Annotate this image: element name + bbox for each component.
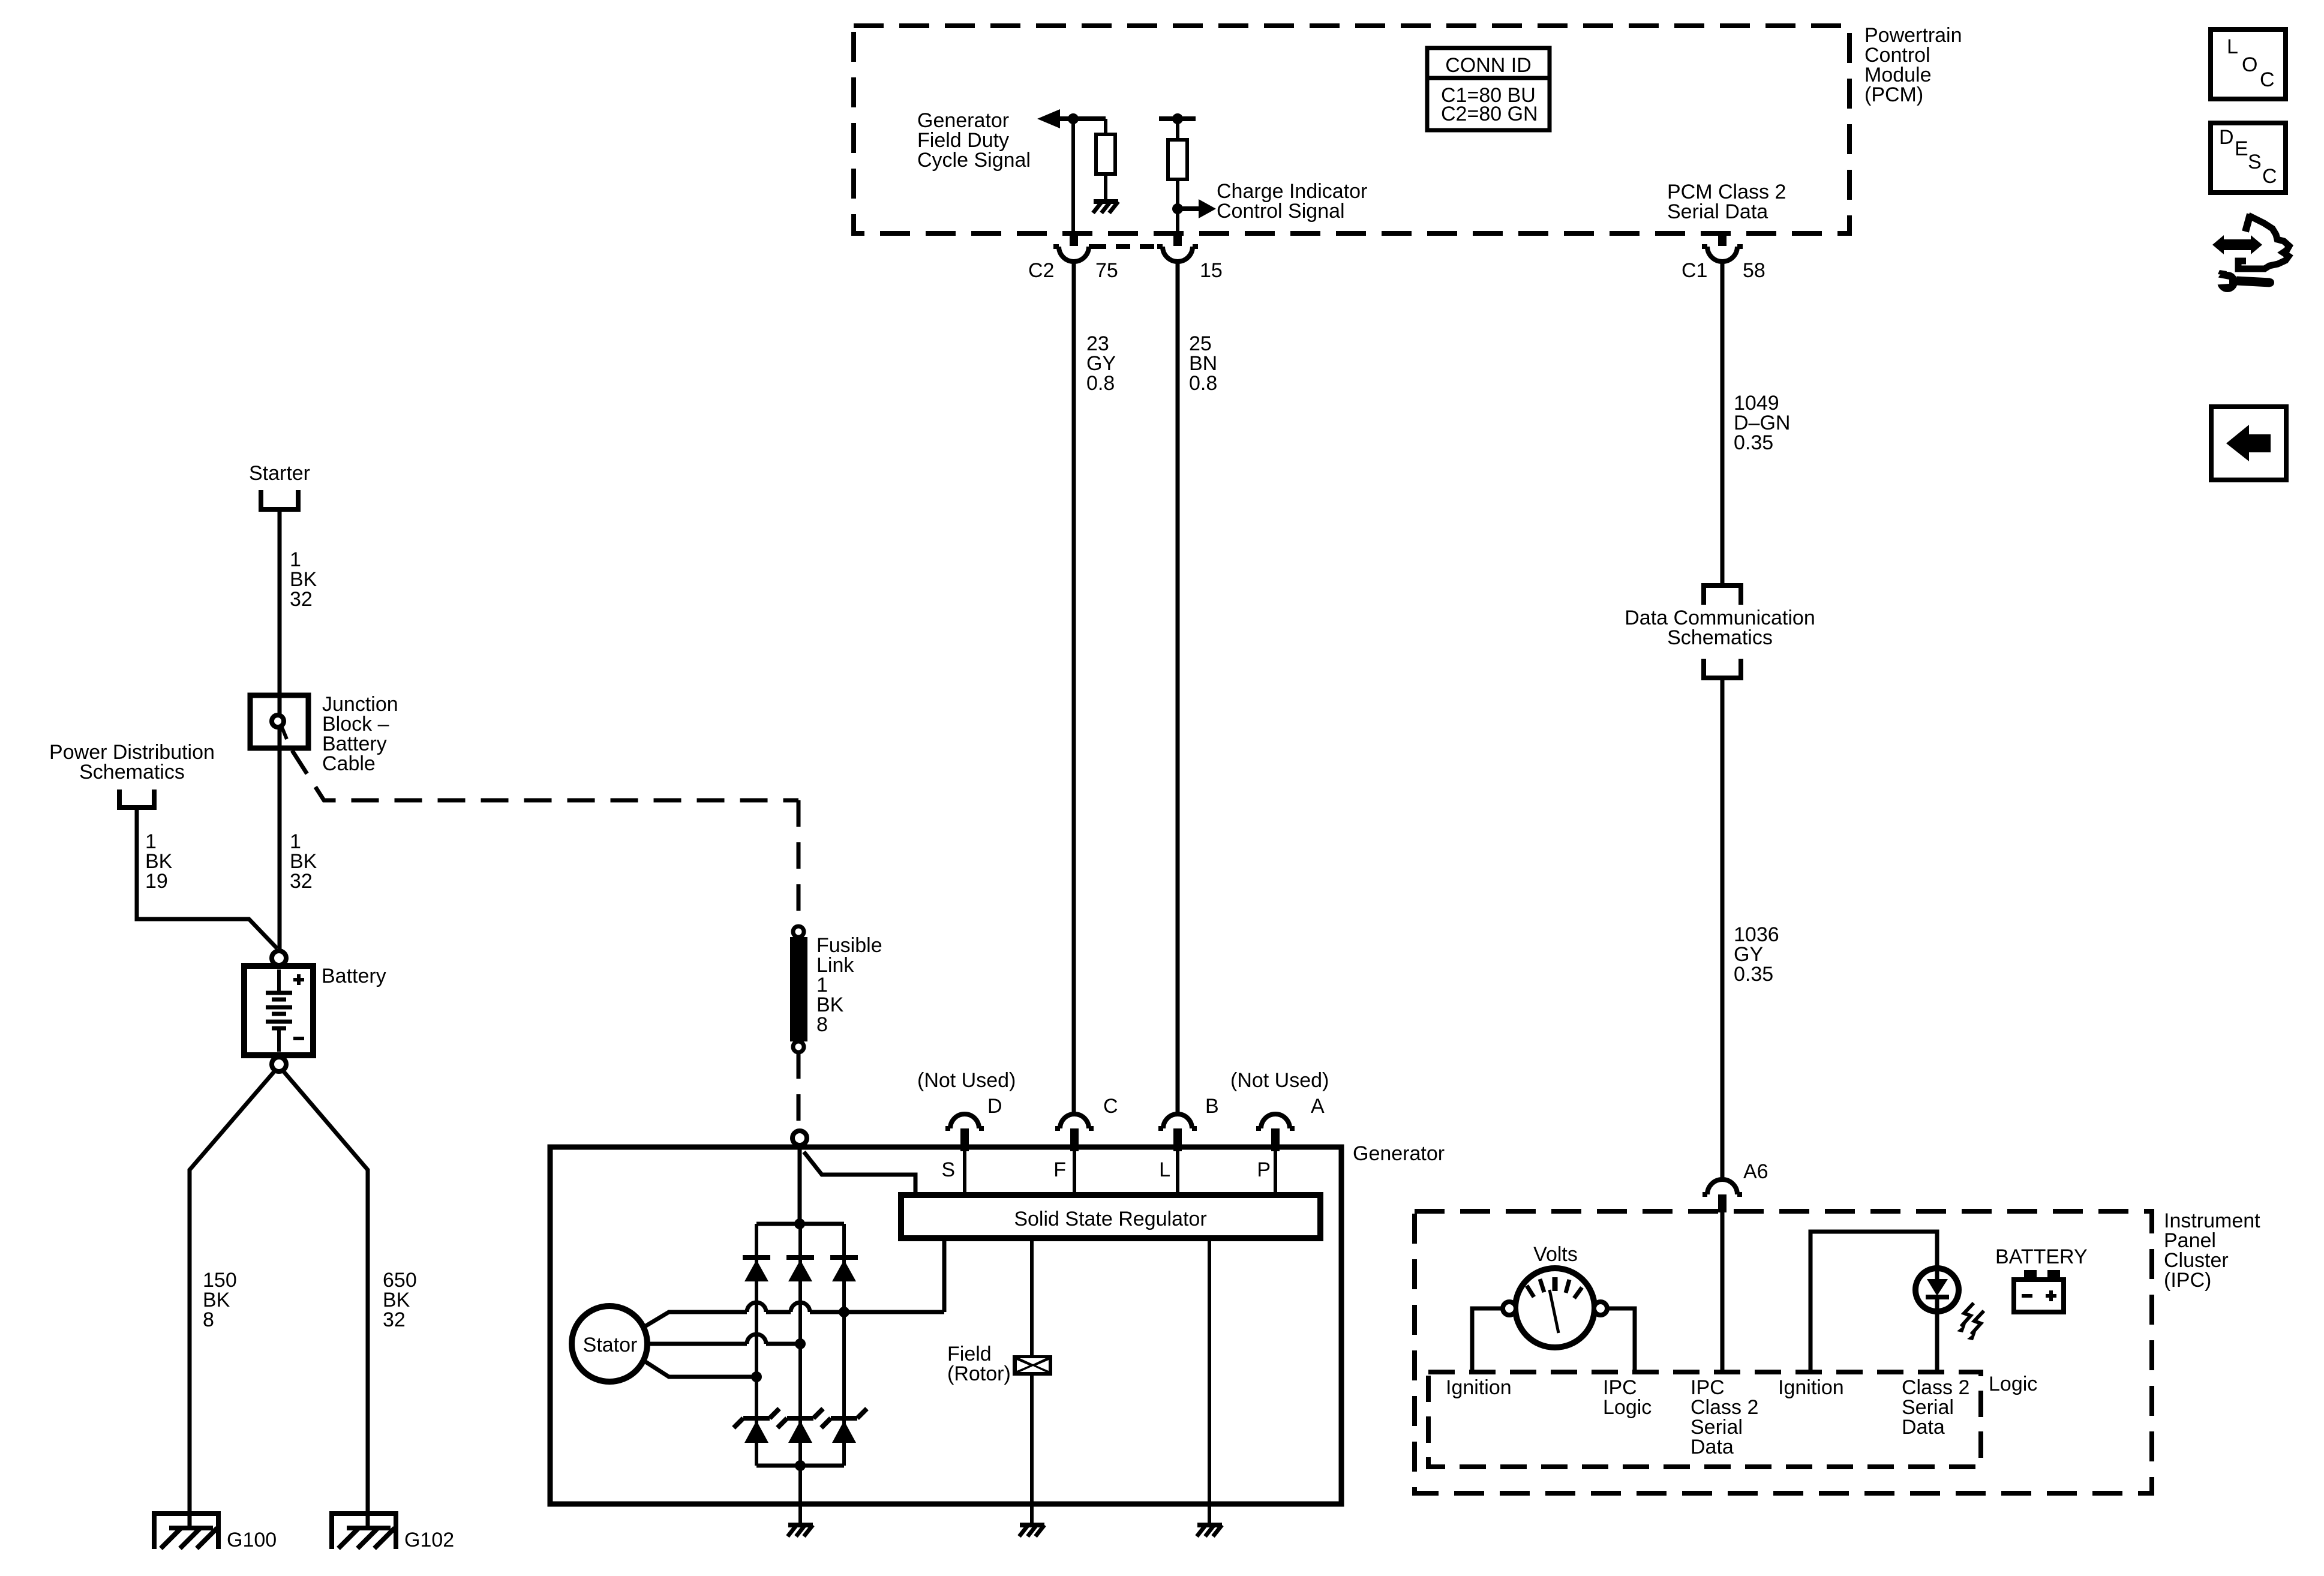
svg-text:A: A bbox=[1311, 1095, 1325, 1118]
svg-text:O: O bbox=[2242, 53, 2257, 76]
connector C2 pin 15 bbox=[1157, 231, 1198, 262]
icon battery telltale bbox=[2014, 1270, 2064, 1312]
label Starter bbox=[249, 462, 310, 485]
label Volts bbox=[1533, 1243, 1578, 1266]
ground rectifier bbox=[788, 1525, 813, 1536]
wire battery to G100 bbox=[190, 1070, 275, 1528]
wire field to ground bbox=[1030, 1376, 1034, 1525]
svg-text:C: C bbox=[1103, 1095, 1118, 1118]
wire R1 to ground bbox=[1104, 174, 1107, 202]
svg-text:S: S bbox=[941, 1158, 955, 1181]
label 1036 GY 0.35 bbox=[1734, 923, 1779, 986]
pin label 75 bbox=[1095, 259, 1118, 282]
wire pin 15 vertical bbox=[1176, 209, 1179, 231]
node rail at pin 15 bbox=[1159, 113, 1196, 124]
svg-text:8: 8 bbox=[203, 1308, 214, 1331]
svg-text:Cable: Cable bbox=[322, 752, 376, 775]
label Not Used left bbox=[917, 1069, 1016, 1092]
junction block - battery cable bbox=[250, 695, 308, 748]
label BATTERY bbox=[1995, 1245, 2088, 1268]
pin label A bbox=[1311, 1095, 1325, 1118]
arrow Generator Field Duty Cycle Signal bbox=[1037, 109, 1073, 128]
connector D not used bbox=[945, 1114, 984, 1151]
svg-text:D: D bbox=[987, 1095, 1002, 1118]
svg-text:0.35: 0.35 bbox=[1734, 431, 1773, 454]
label Generator Field Duty Cycle Signal bbox=[917, 109, 1031, 172]
ground PCM internal bbox=[1093, 202, 1118, 213]
svg-text:0.35: 0.35 bbox=[1734, 963, 1773, 986]
label Power Distribution Schematics bbox=[49, 741, 215, 784]
svg-text:C2=80 GN: C2=80 GN bbox=[1441, 103, 1538, 125]
diode D2 top bbox=[786, 1257, 814, 1281]
svg-text:P: P bbox=[1257, 1158, 1271, 1181]
LED charge indicator bbox=[1915, 1268, 1959, 1372]
pin label F bbox=[1053, 1158, 1066, 1181]
terminal circle battery feed bbox=[792, 1131, 807, 1145]
label PCM Class 2 Serial Data bbox=[1667, 181, 1786, 223]
svg-text:19: 19 bbox=[145, 870, 168, 893]
IPC dashed box bbox=[1415, 1211, 2152, 1493]
PCM module dashed box bbox=[854, 26, 1849, 233]
resistor R2 bbox=[1168, 140, 1187, 179]
ground regulator bbox=[1197, 1525, 1222, 1536]
LED light arrows bbox=[1957, 1303, 1984, 1340]
off-page bracket Data Communication bottom bbox=[1704, 659, 1741, 678]
wire stator phase 2 bbox=[647, 1334, 800, 1344]
rectifier bottom bus bbox=[756, 1464, 844, 1468]
connector A not used bbox=[1256, 1114, 1295, 1151]
svg-text:G100: G100 bbox=[227, 1529, 277, 1551]
wire to resistor R1 bbox=[1073, 119, 1106, 134]
svg-text:Starter: Starter bbox=[249, 462, 310, 485]
label 25 BN 0.8 bbox=[1189, 332, 1217, 395]
ground G102 bbox=[332, 1514, 396, 1549]
pin label S bbox=[941, 1158, 955, 1181]
svg-text:Volts: Volts bbox=[1533, 1243, 1578, 1266]
connector C bbox=[1055, 1114, 1094, 1151]
pin label A6 bbox=[1743, 1160, 1768, 1183]
diode Z3 avalanche bottom bbox=[821, 1409, 867, 1443]
IPC logic inner dashed box bbox=[1428, 1372, 1981, 1467]
wire stator phase 1 bbox=[642, 1238, 944, 1328]
svg-text:Logic: Logic bbox=[1989, 1373, 2037, 1395]
generator box bbox=[550, 1147, 1341, 1504]
pin label C1 bbox=[1682, 259, 1707, 282]
svg-text:C: C bbox=[2260, 68, 2275, 91]
label G100 bbox=[227, 1529, 277, 1551]
node top bus junction bbox=[794, 1218, 805, 1229]
stator winding bbox=[572, 1306, 647, 1382]
svg-text:(IPC): (IPC) bbox=[2164, 1269, 2211, 1292]
svg-text:L: L bbox=[2227, 35, 2238, 58]
connector C1 pin 58 bbox=[1702, 231, 1743, 262]
svg-text:F: F bbox=[1053, 1158, 1066, 1181]
ground G100 bbox=[154, 1514, 218, 1549]
svg-text:BATTERY: BATTERY bbox=[1995, 1245, 2088, 1268]
label Class 2 Serial Data bbox=[1902, 1376, 1969, 1439]
svg-text:8: 8 bbox=[816, 1013, 828, 1036]
icon DESC box bbox=[2211, 123, 2286, 193]
svg-text:Ignition: Ignition bbox=[1446, 1376, 1512, 1399]
diode D1 top bbox=[743, 1257, 770, 1281]
wire battery to G102 bbox=[283, 1070, 368, 1528]
node junction charge indicator bbox=[1172, 203, 1183, 214]
svg-text:Stator: Stator bbox=[583, 1334, 638, 1356]
node junction at pin 75 rail bbox=[1068, 113, 1079, 124]
wire junction block to battery bbox=[278, 748, 282, 952]
wire starter to junction block bbox=[278, 511, 282, 750]
wire F pin to regulator bbox=[1073, 1151, 1076, 1195]
gauge terminal right bbox=[1594, 1302, 1607, 1315]
connector A6 bbox=[1703, 1179, 1742, 1212]
svg-text:Schematics: Schematics bbox=[1667, 626, 1773, 649]
wire dashed drop to fusible link bbox=[797, 800, 801, 926]
svg-text:15: 15 bbox=[1200, 259, 1223, 282]
label Logic bbox=[1989, 1373, 2037, 1395]
svg-text:(PCM): (PCM) bbox=[1864, 83, 1923, 106]
label Ignition left bbox=[1446, 1376, 1512, 1399]
pin label C bbox=[1103, 1095, 1118, 1118]
svg-text:Control Signal: Control Signal bbox=[1217, 200, 1345, 223]
pin label C2 bbox=[1028, 259, 1054, 282]
node phase 3 junction bbox=[751, 1371, 762, 1382]
off-page bracket Data Communication top bbox=[1704, 586, 1741, 605]
svg-text:D: D bbox=[2219, 126, 2234, 149]
label Powertrain Control Module (PCM) bbox=[1864, 24, 1962, 106]
wire volts gauge to IPC logic bbox=[1607, 1308, 1635, 1372]
svg-text:58: 58 bbox=[1743, 259, 1765, 282]
svg-text:Schematics: Schematics bbox=[79, 761, 185, 784]
diode Z1 avalanche bottom bbox=[734, 1409, 779, 1443]
wire 23 GY 0.8 bbox=[1072, 262, 1076, 1114]
svg-text:E: E bbox=[2235, 137, 2248, 160]
pin label P bbox=[1257, 1158, 1271, 1181]
svg-text:75: 75 bbox=[1095, 259, 1118, 282]
svg-text:Battery: Battery bbox=[322, 965, 386, 987]
wire regulator to field bbox=[1030, 1238, 1034, 1357]
connector C2 pin 75 bbox=[1053, 231, 1094, 262]
wire S pin to regulator bbox=[963, 1151, 966, 1195]
diode D3 top bbox=[830, 1257, 858, 1281]
wire 25 BN 0.8 bbox=[1176, 262, 1180, 1114]
svg-text:(Rotor): (Rotor) bbox=[947, 1362, 1011, 1385]
svg-text:Serial Data: Serial Data bbox=[1667, 200, 1768, 223]
connector B bbox=[1158, 1114, 1197, 1151]
gauge Volts bbox=[1515, 1268, 1595, 1347]
battery negative terminal bbox=[272, 1057, 286, 1071]
icon wrench bbox=[2212, 270, 2274, 292]
node bottom bus junction bbox=[795, 1460, 806, 1471]
off-page bracket Starter bbox=[261, 490, 298, 509]
svg-text:L: L bbox=[1159, 1158, 1170, 1181]
node phase 2 junction bbox=[795, 1338, 806, 1349]
label Ignition right bbox=[1778, 1376, 1844, 1399]
wire L pin to regulator bbox=[1176, 1151, 1179, 1195]
svg-text:CONN ID: CONN ID bbox=[1445, 54, 1532, 77]
label Battery bbox=[322, 965, 386, 987]
label 1 BK 32 upper bbox=[290, 548, 317, 611]
wire pin 75 vertical bbox=[1071, 119, 1075, 231]
pin label D bbox=[987, 1095, 1002, 1118]
battery positive terminal bbox=[272, 951, 286, 965]
label 1 BK 32 lower bbox=[290, 830, 317, 893]
label 650 BK 32 bbox=[383, 1269, 417, 1331]
resistor R1 bbox=[1096, 134, 1115, 174]
pin label 58 bbox=[1743, 259, 1765, 282]
label 150 BK 8 bbox=[203, 1269, 237, 1331]
svg-text:Solid State Regulator: Solid State Regulator bbox=[1014, 1208, 1206, 1230]
label Charge Indicator Control Signal bbox=[1217, 180, 1367, 223]
wire ignition riser to LED bbox=[1810, 1232, 1937, 1372]
wire battery feed jog to regulator bbox=[804, 1152, 915, 1195]
svg-text:(Not Used): (Not Used) bbox=[917, 1069, 1016, 1092]
gauge terminal left bbox=[1503, 1302, 1516, 1315]
icon diagnostic arrows bbox=[2212, 214, 2289, 269]
wire P pin to regulator bbox=[1274, 1151, 1277, 1195]
ground field bbox=[1019, 1525, 1044, 1536]
fusible link terminal top bbox=[793, 926, 804, 937]
pin label 15 bbox=[1200, 259, 1223, 282]
label Instrument Panel Cluster (IPC) bbox=[2164, 1209, 2260, 1292]
label Fusible Link 1 BK 8 bbox=[816, 934, 882, 1036]
field rotor winding bbox=[1013, 1355, 1052, 1376]
fusible link F1 bbox=[790, 937, 807, 1041]
label G102 bbox=[404, 1529, 454, 1551]
wire battery feed to rectifier bbox=[798, 1145, 802, 1224]
svg-text:(Not Used): (Not Used) bbox=[1230, 1069, 1329, 1092]
label Not Used right bbox=[1230, 1069, 1329, 1092]
wire rectifier column 2 bbox=[798, 1224, 802, 1466]
diode Z2 avalanche bottom bbox=[777, 1409, 823, 1443]
svg-text:A6: A6 bbox=[1743, 1160, 1768, 1183]
svg-text:C2: C2 bbox=[1028, 259, 1054, 282]
label Junction Block - Battery Cable bbox=[322, 693, 398, 775]
wire stator phase 3 bbox=[642, 1359, 756, 1377]
wire rail to resistor R2 bbox=[1176, 119, 1179, 140]
wire rectifier column 1 bbox=[755, 1224, 758, 1466]
pin label B bbox=[1205, 1095, 1219, 1118]
svg-text:32: 32 bbox=[383, 1308, 406, 1331]
label Data Communication Schematics bbox=[1625, 607, 1815, 649]
wire 1036 GY bbox=[1721, 678, 1725, 1178]
wire rectifier to ground bbox=[798, 1466, 802, 1525]
label Generator bbox=[1353, 1142, 1445, 1165]
label 1049 D-GN 0.35 bbox=[1734, 392, 1790, 454]
svg-text:Cycle Signal: Cycle Signal bbox=[917, 149, 1031, 172]
svg-text:32: 32 bbox=[290, 588, 313, 611]
battery G1 bbox=[244, 966, 313, 1055]
wire R2 to node bbox=[1176, 179, 1179, 209]
icon LOC box bbox=[2211, 29, 2286, 99]
regulator U1 Solid State Regulator bbox=[901, 1195, 1320, 1238]
label 23 GY 0.8 bbox=[1086, 332, 1116, 395]
wire rectifier column 3 bbox=[842, 1224, 846, 1466]
wire dashed fusible link to generator bbox=[797, 1052, 801, 1130]
label IPC Logic bbox=[1603, 1376, 1652, 1419]
svg-text:C1: C1 bbox=[1682, 259, 1707, 282]
svg-text:Data: Data bbox=[1902, 1416, 1945, 1439]
fusible link terminal bottom bbox=[793, 1041, 804, 1052]
svg-text:32: 32 bbox=[290, 870, 313, 893]
wire power distribution to battery bbox=[137, 809, 277, 948]
CONN ID table bbox=[1427, 48, 1550, 130]
svg-text:Ignition: Ignition bbox=[1778, 1376, 1844, 1399]
label 1 BK 19 bbox=[145, 830, 173, 893]
svg-text:G102: G102 bbox=[404, 1529, 454, 1551]
dashed connector link C2 bbox=[1092, 244, 1160, 249]
off-page bracket Power Distribution bbox=[119, 789, 154, 807]
svg-text:Logic: Logic bbox=[1603, 1396, 1652, 1419]
wire battery cable dashed bbox=[292, 751, 798, 800]
label Field (Rotor) bbox=[947, 1343, 1011, 1385]
svg-text:Generator: Generator bbox=[1353, 1142, 1445, 1165]
pin label L bbox=[1159, 1158, 1170, 1181]
node phase 1 junction bbox=[839, 1307, 849, 1317]
svg-text:B: B bbox=[1205, 1095, 1219, 1118]
svg-text:Data: Data bbox=[1691, 1436, 1734, 1458]
wire 1049 D-GN upper bbox=[1721, 262, 1725, 586]
icon back arrow box bbox=[2211, 407, 2286, 480]
svg-text:0.8: 0.8 bbox=[1086, 372, 1115, 395]
wire regulator right to ground bbox=[1208, 1238, 1211, 1525]
wire ignition to volts gauge bbox=[1472, 1308, 1503, 1372]
label IPC Class 2 Serial Data bbox=[1691, 1376, 1758, 1458]
rectifier top bus bbox=[756, 1222, 844, 1226]
svg-text:C: C bbox=[2262, 165, 2277, 188]
wire A6 to IPC logic bbox=[1721, 1211, 1725, 1372]
svg-text:0.8: 0.8 bbox=[1189, 372, 1217, 395]
arrow Charge Indicator Control Signal bbox=[1178, 199, 1216, 218]
svg-text:S: S bbox=[2248, 151, 2262, 173]
